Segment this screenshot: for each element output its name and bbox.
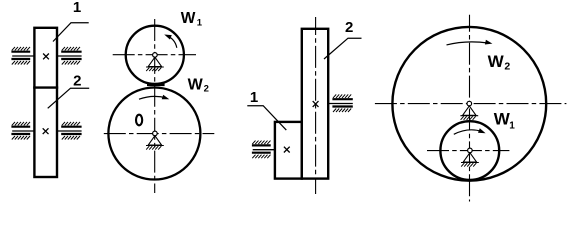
leader line for label 2 [48, 88, 89, 108]
friction wheel 2 (large, W2) [108, 88, 200, 180]
pivot support at wheel 1 centre [461, 148, 479, 167]
pivot support at wheel 1 centre [146, 53, 164, 71]
label W1 [181, 10, 203, 29]
rotation arrow W1 (clockwise) [454, 128, 486, 134]
svg-text:2: 2 [204, 84, 209, 95]
shaft axis mark x (upper shaft) [43, 54, 49, 60]
svg-text:W: W [488, 52, 505, 71]
rotation arrow W2 (clockwise) [447, 40, 493, 45]
svg-text:2: 2 [504, 61, 510, 73]
label W2 [188, 77, 209, 95]
label W2 [488, 52, 511, 72]
shaft axis mark x (wheel 2) [313, 101, 319, 107]
svg-text:1: 1 [509, 120, 515, 131]
horizontal centerline of wheel 2 [375, 103, 567, 105]
vertical centerline [154, 19, 156, 193]
friction drive side view (external contact) [11, 0, 89, 177]
svg-text:W: W [494, 110, 511, 129]
bearing lower-right [56, 122, 82, 140]
leader line for label 2 [324, 38, 362, 59]
shaft axis mark x (wheel 1) [284, 147, 290, 153]
divider line between wheel 1 and wheel 2 [33, 86, 58, 88]
friction wheel 1 (small, W1) [126, 26, 184, 84]
svg-text:W: W [188, 77, 204, 94]
svg-text:2: 2 [345, 19, 353, 36]
front view of internal friction drive [375, 15, 567, 202]
horizontal centerline of wheel 2 [104, 133, 215, 135]
svg-text:W: W [181, 10, 196, 27]
friction drive side view (internal contact) [247, 17, 361, 194]
pivot support at wheel 2 centre [460, 101, 478, 120]
leader line for label 1 [53, 23, 89, 42]
svg-text:1: 1 [250, 89, 258, 106]
svg-text:1: 1 [197, 18, 203, 29]
bearing of wheel 2 shaft [327, 94, 353, 112]
horizontal centerline of wheel 1 [113, 54, 196, 56]
horizontal centerline of wheel 1 [427, 150, 509, 152]
friction wheel 1 (small, W1) [440, 121, 499, 180]
rotation arrow W2 (clockwise) [139, 95, 169, 100]
bearing lower-left [11, 122, 35, 140]
bearing of wheel 1 shaft [252, 141, 276, 159]
rotation arrow W1 (counter-clockwise) [164, 35, 177, 48]
label W1 [494, 110, 516, 132]
wheel 1 body rectangle (small) [275, 122, 302, 179]
friction wheel 2 (large ring, W2) [392, 27, 546, 181]
bearing upper-left [11, 47, 35, 65]
svg-text:1: 1 [73, 0, 81, 16]
leader line for label 1 [247, 106, 286, 130]
shaft axis mark x (lower shaft) [43, 128, 49, 134]
bearing upper-right [56, 47, 82, 65]
vertical centerline [469, 15, 471, 202]
contact point of wheel 1 and wheel 2 [147, 83, 165, 86]
wheel body rectangle (side view) [34, 28, 57, 177]
pivot support at wheel 2 centre [146, 131, 164, 150]
svg-text:2: 2 [73, 72, 81, 89]
wheel 2 body rectangle (tall) [302, 29, 328, 179]
front view of external friction drive [104, 10, 215, 193]
label O (centre of wheel 2) [136, 115, 142, 126]
vertical centerline of tall wheel [315, 17, 317, 194]
